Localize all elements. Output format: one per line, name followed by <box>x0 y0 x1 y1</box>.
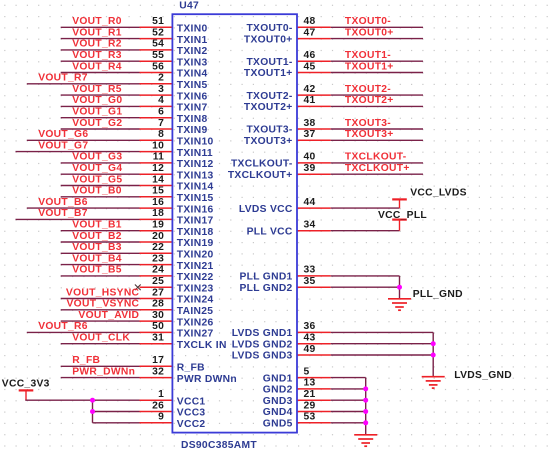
svg-text:VOUT_R4: VOUT_R4 <box>72 61 122 72</box>
svg-text:VOUT_G4: VOUT_G4 <box>72 163 122 174</box>
svg-text:49: 49 <box>304 344 316 355</box>
svg-text:GND4: GND4 <box>263 407 293 418</box>
svg-text:LVDS_GND: LVDS_GND <box>454 370 512 381</box>
svg-text:TXCLKOUT-: TXCLKOUT- <box>345 152 407 163</box>
svg-text:VOUT_G3: VOUT_G3 <box>72 152 122 163</box>
svg-text:TXIN17: TXIN17 <box>177 216 214 227</box>
svg-text:TXCLKOUT+: TXCLKOUT+ <box>228 170 293 181</box>
svg-text:VOUT_G5: VOUT_G5 <box>72 174 122 185</box>
svg-text:14: 14 <box>152 174 164 185</box>
svg-text:31: 31 <box>152 333 164 344</box>
svg-text:55: 55 <box>152 50 164 61</box>
svg-text:36: 36 <box>304 321 316 332</box>
svg-text:VCC_LVDS: VCC_LVDS <box>410 187 467 198</box>
svg-text:VOUT_R3: VOUT_R3 <box>72 50 122 61</box>
svg-text:19: 19 <box>152 220 164 231</box>
svg-text:VOUT_B4: VOUT_B4 <box>72 253 122 264</box>
svg-text:VCC2: VCC2 <box>177 419 206 430</box>
svg-text:VOUT_R5: VOUT_R5 <box>72 84 122 95</box>
svg-text:GND3: GND3 <box>263 396 293 407</box>
svg-text:VOUT_B5: VOUT_B5 <box>72 265 122 276</box>
svg-text:VOUT_G0: VOUT_G0 <box>72 95 122 106</box>
svg-text:VOUT_B0: VOUT_B0 <box>72 186 122 197</box>
svg-text:VOUT_HSYNC: VOUT_HSYNC <box>66 287 140 298</box>
svg-text:VOUT_G6: VOUT_G6 <box>38 129 88 140</box>
svg-text:VOUT_B2: VOUT_B2 <box>72 231 122 242</box>
svg-text:TXOUT2+: TXOUT2+ <box>244 102 293 113</box>
svg-text:VCC_3V3: VCC_3V3 <box>2 379 50 390</box>
svg-text:VOUT_R2: VOUT_R2 <box>72 39 122 50</box>
svg-text:VOUT_G7: VOUT_G7 <box>38 140 88 151</box>
svg-text:30: 30 <box>152 310 164 321</box>
svg-text:34: 34 <box>304 220 316 231</box>
svg-text:R_FB: R_FB <box>72 355 100 366</box>
svg-text:3: 3 <box>158 84 164 95</box>
svg-text:PLL VCC: PLL VCC <box>247 226 293 237</box>
svg-text:TXOUT0+: TXOUT0+ <box>244 34 293 45</box>
svg-text:TXIN10: TXIN10 <box>177 137 214 148</box>
svg-text:DS90C385AMT: DS90C385AMT <box>181 440 257 451</box>
svg-text:24: 24 <box>152 265 164 276</box>
svg-text:TXIN5: TXIN5 <box>177 80 208 91</box>
svg-text:LVDS GND3: LVDS GND3 <box>232 351 293 362</box>
svg-text:TXIN12: TXIN12 <box>177 159 214 170</box>
svg-text:21: 21 <box>304 389 316 400</box>
svg-text:TXCLKOUT-: TXCLKOUT- <box>231 159 293 170</box>
svg-text:TXCLK IN: TXCLK IN <box>177 340 227 351</box>
svg-text:TXIN9: TXIN9 <box>177 125 208 136</box>
svg-text:TXIN3: TXIN3 <box>177 57 208 68</box>
svg-text:53: 53 <box>304 412 316 423</box>
svg-text:TXCLKOUT+: TXCLKOUT+ <box>345 163 410 174</box>
svg-text:TXIN14: TXIN14 <box>177 182 214 193</box>
svg-text:44: 44 <box>304 197 316 208</box>
svg-text:TXOUT1-: TXOUT1- <box>345 50 391 61</box>
svg-text:11: 11 <box>153 152 165 163</box>
svg-text:TXOUT2-: TXOUT2- <box>246 91 292 102</box>
svg-text:TXIN15: TXIN15 <box>177 193 214 204</box>
svg-text:45: 45 <box>304 61 316 72</box>
svg-text:TXIN24: TXIN24 <box>177 295 214 306</box>
svg-text:48: 48 <box>304 16 316 27</box>
svg-text:6: 6 <box>158 107 164 118</box>
svg-text:TXIN4: TXIN4 <box>177 69 208 80</box>
svg-text:TXOUT1+: TXOUT1+ <box>244 68 293 79</box>
svg-text:LVDS GND1: LVDS GND1 <box>232 328 293 339</box>
svg-text:VOUT_B7: VOUT_B7 <box>38 208 88 219</box>
svg-text:TXIN27: TXIN27 <box>177 329 214 340</box>
svg-text:VOUT_B1: VOUT_B1 <box>72 220 122 231</box>
svg-text:LVDS VCC: LVDS VCC <box>239 204 293 215</box>
svg-text:VOUT_G1: VOUT_G1 <box>72 107 122 118</box>
svg-text:R_FB: R_FB <box>177 363 205 374</box>
svg-text:56: 56 <box>152 61 164 72</box>
svg-text:VOUT_CLK: VOUT_CLK <box>72 333 130 344</box>
svg-text:TXOUT1+: TXOUT1+ <box>345 61 394 72</box>
svg-text:PLL GND2: PLL GND2 <box>239 283 292 294</box>
svg-text:TXIN16: TXIN16 <box>177 204 214 215</box>
svg-text:VOUT_R6: VOUT_R6 <box>38 321 88 332</box>
svg-text:TXOUT3+: TXOUT3+ <box>345 129 394 140</box>
svg-text:46: 46 <box>304 50 316 61</box>
svg-text:TXIN22: TXIN22 <box>177 272 214 283</box>
svg-text:TXIN13: TXIN13 <box>177 170 214 181</box>
svg-text:VOUT_G2: VOUT_G2 <box>72 118 122 129</box>
svg-text:13: 13 <box>304 378 316 389</box>
svg-text:TXIN6: TXIN6 <box>177 91 208 102</box>
svg-text:TXIN7: TXIN7 <box>177 103 208 114</box>
svg-text:50: 50 <box>152 321 164 332</box>
svg-text:U47: U47 <box>179 1 199 12</box>
svg-text:TXIN21: TXIN21 <box>177 261 214 272</box>
svg-text:VOUT_R0: VOUT_R0 <box>72 16 122 27</box>
svg-text:VOUT_AVID: VOUT_AVID <box>78 310 139 321</box>
svg-text:15: 15 <box>152 186 164 197</box>
svg-text:TXOUT2-: TXOUT2- <box>345 84 391 95</box>
svg-text:TXIN23: TXIN23 <box>177 283 214 294</box>
svg-text:12: 12 <box>152 163 164 174</box>
svg-text:PLL GND1: PLL GND1 <box>239 272 292 283</box>
svg-text:9: 9 <box>158 412 164 423</box>
svg-text:LVDS GND2: LVDS GND2 <box>232 339 293 350</box>
svg-text:TXOUT0+: TXOUT0+ <box>345 27 394 38</box>
svg-text:VOUT_VSYNC: VOUT_VSYNC <box>66 299 139 310</box>
svg-text:VCC_PLL: VCC_PLL <box>378 210 427 221</box>
svg-text:26: 26 <box>152 400 164 411</box>
svg-text:17: 17 <box>152 355 164 366</box>
svg-text:GND2: GND2 <box>263 385 293 396</box>
svg-text:VOUT_B6: VOUT_B6 <box>38 197 88 208</box>
svg-text:38: 38 <box>304 118 316 129</box>
svg-text:PLL_GND: PLL_GND <box>413 289 463 300</box>
svg-text:2: 2 <box>158 73 164 84</box>
svg-text:10: 10 <box>152 140 164 151</box>
svg-text:TXIN2: TXIN2 <box>177 46 208 57</box>
svg-text:29: 29 <box>304 400 316 411</box>
svg-text:TXIN8: TXIN8 <box>177 114 208 125</box>
svg-text:40: 40 <box>304 152 316 163</box>
svg-text:7: 7 <box>158 118 164 129</box>
svg-text:TXIN19: TXIN19 <box>177 238 214 249</box>
svg-text:35: 35 <box>304 276 316 287</box>
svg-text:GND1: GND1 <box>263 373 293 384</box>
svg-text:42: 42 <box>304 84 316 95</box>
svg-text:39: 39 <box>304 163 316 174</box>
svg-text:25: 25 <box>152 276 164 287</box>
svg-text:TXOUT0-: TXOUT0- <box>345 16 391 27</box>
svg-text:37: 37 <box>304 129 316 140</box>
svg-text:VOUT_B3: VOUT_B3 <box>72 242 122 253</box>
svg-text:VCC3: VCC3 <box>177 408 206 419</box>
svg-text:TXOUT0-: TXOUT0- <box>246 23 292 34</box>
svg-text:52: 52 <box>152 27 164 38</box>
svg-text:TXIN20: TXIN20 <box>177 250 214 261</box>
svg-text:47: 47 <box>304 27 316 38</box>
svg-text:51: 51 <box>152 16 164 27</box>
svg-text:TXOUT3-: TXOUT3- <box>345 118 391 129</box>
svg-text:TXIN18: TXIN18 <box>177 227 214 238</box>
svg-text:GND5: GND5 <box>263 419 293 430</box>
svg-text:18: 18 <box>152 208 164 219</box>
svg-text:22: 22 <box>152 242 164 253</box>
svg-text:VOUT_R1: VOUT_R1 <box>72 27 122 38</box>
svg-text:TXOUT3-: TXOUT3- <box>246 125 292 136</box>
svg-text:VOUT_R7: VOUT_R7 <box>38 73 88 84</box>
svg-text:TXOUT1-: TXOUT1- <box>246 57 292 68</box>
svg-text:41: 41 <box>304 95 316 106</box>
svg-text:27: 27 <box>152 287 164 298</box>
svg-text:16: 16 <box>152 197 164 208</box>
svg-text:TXOUT3+: TXOUT3+ <box>244 136 293 147</box>
svg-text:VCC1: VCC1 <box>177 396 206 407</box>
svg-text:TAIN25: TAIN25 <box>177 306 214 317</box>
svg-text:20: 20 <box>152 231 164 242</box>
svg-text:8: 8 <box>158 129 164 140</box>
svg-text:23: 23 <box>152 253 164 264</box>
svg-text:4: 4 <box>158 95 164 106</box>
svg-text:43: 43 <box>304 333 316 344</box>
svg-text:1: 1 <box>158 389 164 400</box>
svg-text:32: 32 <box>152 366 164 377</box>
svg-text:TXIN1: TXIN1 <box>177 35 208 46</box>
svg-text:PWR DWNn: PWR DWNn <box>177 374 237 385</box>
svg-text:TXIN0: TXIN0 <box>177 24 208 35</box>
svg-text:TXIN26: TXIN26 <box>177 317 214 328</box>
svg-text:33: 33 <box>304 265 316 276</box>
svg-text:PWR_DWNn: PWR_DWNn <box>72 366 135 377</box>
svg-text:5: 5 <box>304 366 310 377</box>
svg-text:28: 28 <box>152 299 164 310</box>
svg-text:TXIN11: TXIN11 <box>177 148 213 159</box>
svg-text:54: 54 <box>152 39 164 50</box>
svg-text:TXOUT2+: TXOUT2+ <box>345 95 394 106</box>
